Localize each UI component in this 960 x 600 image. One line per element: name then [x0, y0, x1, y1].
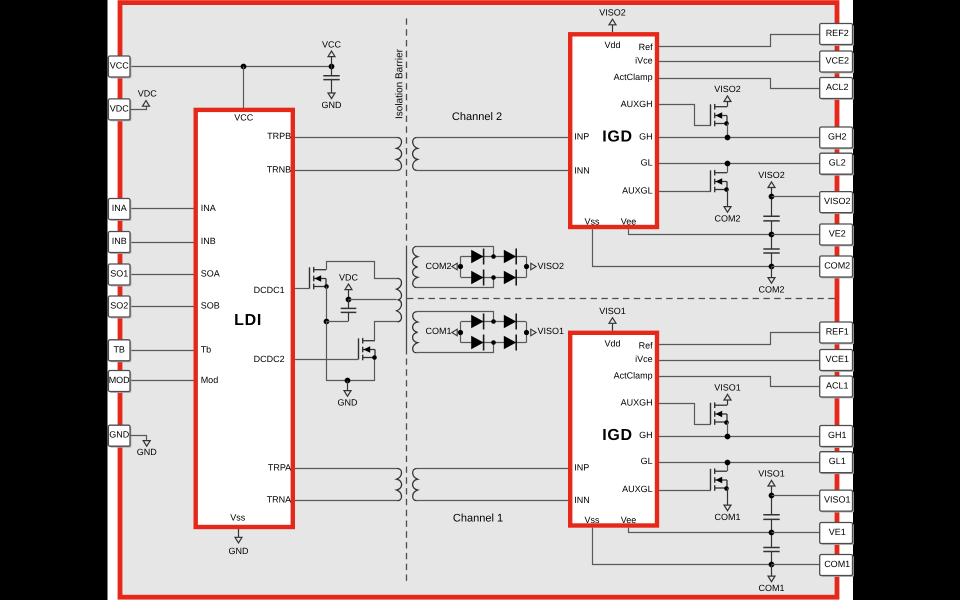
pin iVce: [635, 56, 653, 66]
power symbol VISO2 at Q drain: [727, 102, 729, 107]
wire VDC terminal stub: [130, 106, 147, 109]
pin Vee: [621, 217, 637, 227]
pin ActClamp: [614, 371, 653, 381]
transformer T3 secondary winding: [413, 469, 418, 501]
node bridge AC bottom: [491, 275, 496, 280]
svg-text:INP: INP: [574, 463, 589, 473]
transistor Q1 DCDC1: [309, 267, 311, 288]
wire Q1 source down: [326, 287, 328, 322]
svg-text:VISO1: VISO1: [758, 469, 785, 479]
wire GL to Q drain: [727, 462, 729, 471]
svg-text:GND: GND: [229, 546, 250, 556]
svg-text:INB: INB: [112, 236, 127, 246]
svg-text:VE2: VE2: [829, 229, 846, 239]
svg-text:ACL1: ACL1: [826, 381, 849, 391]
wire DCDC2 gate: [295, 359, 358, 361]
node below Q1: [324, 319, 330, 325]
svg-text:GH1: GH1: [828, 430, 847, 440]
transistor Q2 DCDC2: [358, 338, 360, 359]
node VISO1: [769, 493, 775, 499]
wire bridge top row: [461, 256, 526, 258]
wire AUXGL to gate: [659, 191, 711, 193]
svg-text:INA: INA: [112, 203, 127, 213]
wire secondary to INN channel1: [417, 500, 569, 502]
wire node down to ground rail: [327, 321, 375, 380]
svg-text:AUXGH: AUXGH: [621, 99, 653, 109]
ground symbol COM1 below Q: [727, 488, 729, 501]
terminal TB: [110, 341, 132, 362]
LDI pin INA: [201, 203, 216, 213]
svg-text:VCE1: VCE1: [825, 354, 849, 364]
svg-text:AUXGL: AUXGL: [622, 186, 653, 196]
svg-text:INB: INB: [201, 236, 216, 246]
svg-text:GND: GND: [137, 447, 158, 457]
ground symbol COM1 below rail: [771, 565, 773, 572]
pin GL: [641, 158, 653, 168]
transistor Q low-side aux: [710, 469, 712, 490]
transformer secondary winding: [413, 312, 418, 353]
svg-text:Channel 2: Channel 2: [452, 111, 502, 123]
wire VISO2 to terminal: [772, 196, 820, 198]
svg-text:DCDC2: DCDC2: [254, 354, 285, 364]
wire iVce to VCE1: [659, 360, 820, 362]
node COM1: [769, 562, 775, 568]
svg-text:ActClamp: ActClamp: [614, 72, 653, 82]
wire VE2 to terminal: [772, 234, 820, 236]
node VCC junction: [241, 64, 247, 70]
node VCC cap junction: [329, 64, 335, 70]
pin Ref: [639, 340, 654, 350]
wire DCDC1 gate: [295, 288, 310, 290]
svg-text:COM1: COM1: [714, 512, 740, 522]
svg-text:COM2: COM2: [824, 261, 850, 271]
capacitor C VE-COM: [763, 248, 779, 250]
power symbol VISO2 at cap rail: [771, 188, 773, 192]
svg-text:LDI: LDI: [234, 312, 262, 329]
outer red border with gray fill: [120, 3, 837, 598]
wire GND terminal stub: [130, 436, 147, 441]
wire VCC rail: [130, 66, 332, 68]
svg-text:TRPA: TRPA: [268, 462, 291, 472]
LDI block U1: [196, 110, 293, 527]
pin INP: [574, 463, 589, 473]
pin Vdd: [604, 338, 620, 348]
ground symbol COM2 below rail: [771, 267, 773, 274]
svg-text:GH: GH: [639, 430, 653, 440]
svg-text:REF1: REF1: [826, 327, 849, 337]
svg-text:VCC: VCC: [110, 61, 130, 71]
svg-text:GND: GND: [109, 430, 130, 440]
wire GL to Q drain: [727, 164, 729, 173]
svg-text:Channel 1: Channel 1: [453, 512, 503, 524]
wire SO1 to SOA: [130, 274, 194, 276]
svg-text:Vee: Vee: [621, 515, 637, 525]
svg-text:VCC: VCC: [234, 113, 254, 123]
svg-text:TB: TB: [113, 344, 125, 354]
wire AUXGL to gate: [659, 490, 711, 492]
isolation barrier label: [394, 48, 405, 119]
wire COM2 to terminal: [772, 266, 820, 268]
terminal VE1: [821, 524, 854, 545]
svg-text:GH: GH: [639, 132, 653, 142]
LDI pin INB: [201, 236, 216, 246]
wire Vee to VE2: [629, 229, 772, 234]
svg-text:VISO2: VISO2: [714, 84, 741, 94]
wire Ref to REF2: [659, 35, 820, 47]
terminal GL1: [821, 453, 854, 474]
node bridge AC bottom: [491, 340, 496, 345]
svg-text:Isolation Barrier: Isolation Barrier: [394, 48, 405, 119]
wire cap to node: [326, 321, 348, 323]
pin AUXGL: [622, 186, 653, 196]
node VE2: [769, 232, 775, 238]
svg-text:GND: GND: [338, 397, 359, 407]
isolation barrier dashed line: [406, 18, 408, 241]
svg-text:IGD: IGD: [602, 129, 633, 146]
pin Vss: [584, 217, 600, 227]
wire VCC to LDI: [243, 67, 245, 109]
transistor Q low-side aux: [710, 170, 712, 191]
wire GH to GH1: [659, 436, 820, 438]
pin Ref: [639, 42, 654, 52]
terminal GL2: [821, 155, 854, 176]
svg-text:COM1: COM1: [758, 583, 784, 593]
net label VISO2: [531, 263, 536, 270]
power symbol VDC center tap: [348, 290, 350, 300]
svg-text:TRNB: TRNB: [267, 164, 292, 174]
wire winding top to bridge: [417, 312, 494, 322]
wire bridge bottom row: [461, 342, 526, 344]
wire AUXGH to gate: [659, 404, 711, 425]
node VE1: [769, 530, 775, 536]
svg-text:GL1: GL1: [829, 456, 846, 466]
svg-text:COM1: COM1: [824, 559, 850, 569]
svg-text:MOD: MOD: [109, 375, 130, 385]
svg-text:AUXGL: AUXGL: [622, 484, 653, 494]
wire SO2 to SOB: [130, 306, 194, 308]
node VISO1: [524, 330, 529, 335]
wire Ref to REF1: [659, 333, 820, 345]
wire secondary to INP channel1: [417, 468, 569, 470]
terminal ACL2: [821, 79, 854, 100]
diode D3: [471, 336, 483, 350]
wire Vss to COM1: [593, 528, 772, 565]
wire ActClamp to ACL2: [659, 79, 820, 89]
pin GH: [639, 430, 653, 440]
wire winding bottom to bridge: [417, 278, 494, 288]
LDI pin TRNA: [267, 495, 292, 505]
terminal VCE2: [821, 52, 854, 73]
svg-text:VISO2: VISO2: [758, 170, 785, 180]
net label COM1: [452, 329, 457, 336]
wire AUXGH to gate: [659, 105, 711, 126]
pin AUXGL: [622, 484, 653, 494]
svg-text:VCE2: VCE2: [825, 56, 849, 66]
svg-text:VISO2: VISO2: [599, 8, 626, 18]
svg-text:VISO1: VISO1: [599, 306, 626, 316]
wire GL to GL2: [659, 163, 820, 165]
wire bridge top row: [461, 321, 526, 323]
wire INB: [130, 242, 194, 244]
svg-text:COM2: COM2: [758, 284, 784, 294]
transformer T1 primary winding lower: [397, 300, 402, 322]
IGD title: [602, 427, 633, 444]
node GL junction: [725, 460, 731, 466]
diode D1: [471, 250, 483, 264]
svg-text:TRPB: TRPB: [267, 131, 291, 141]
pin AUXGH: [621, 398, 653, 408]
node bridge AC top: [491, 319, 496, 324]
terminal COM1: [821, 556, 854, 577]
svg-text:iVce: iVce: [635, 56, 653, 66]
svg-text:COM2: COM2: [425, 261, 451, 271]
svg-text:VCC: VCC: [322, 39, 342, 49]
wire bridge right rail: [526, 322, 528, 343]
wire VISO1 rail: [771, 490, 773, 515]
wire secondary to INP: [417, 137, 569, 139]
LDI pin SOB: [201, 301, 220, 311]
node ground rail tap: [345, 378, 351, 384]
channel 1 label: [453, 512, 503, 524]
wire Q source to GH: [727, 124, 729, 138]
ground symbol at GND terminal: [143, 441, 150, 447]
svg-text:Vee: Vee: [621, 217, 637, 227]
wire GH to GH2: [659, 137, 820, 139]
transformer core solid line: [406, 246, 408, 355]
svg-text:GL: GL: [641, 456, 653, 466]
terminal VE2: [821, 225, 854, 246]
wire MOD to Mod: [130, 380, 194, 382]
power symbol VISO1 at Q drain: [727, 400, 729, 405]
wire bridge left rail: [460, 322, 462, 343]
svg-text:SO2: SO2: [110, 301, 128, 311]
svg-text:VDC: VDC: [138, 89, 158, 99]
svg-text:INP: INP: [574, 132, 589, 142]
transformer T1 primary winding upper: [397, 278, 402, 299]
wire VE1 to terminal: [772, 532, 820, 534]
svg-text:TRNA: TRNA: [267, 495, 292, 505]
pin INN: [574, 495, 590, 505]
node bridge AC top: [491, 254, 496, 259]
diode D4: [504, 271, 516, 285]
svg-text:SO1: SO1: [110, 269, 128, 279]
wire COM1 to terminal: [772, 564, 820, 566]
pin GL: [641, 456, 653, 466]
svg-text:VE1: VE1: [829, 527, 846, 537]
LDI pin TRNB: [267, 164, 292, 174]
node VISO2: [769, 194, 775, 200]
svg-text:GL: GL: [641, 158, 653, 168]
node COM1: [458, 330, 463, 335]
terminal INA: [110, 200, 132, 221]
terminal GH1: [821, 427, 854, 448]
svg-text:ACL2: ACL2: [826, 82, 849, 92]
terminal SO2: [110, 297, 132, 318]
svg-text:INN: INN: [574, 165, 590, 175]
svg-text:GH2: GH2: [828, 132, 847, 142]
wire TRPA: [295, 468, 398, 470]
wire TB to Tb: [130, 350, 194, 352]
svg-text:Vss: Vss: [230, 513, 246, 523]
pin INP: [574, 132, 589, 142]
node VDC tap: [346, 297, 352, 303]
svg-text:IGD: IGD: [602, 427, 633, 444]
terminal VCC: [110, 57, 132, 78]
svg-text:DCDC1: DCDC1: [254, 285, 285, 295]
svg-text:Vss: Vss: [584, 515, 600, 525]
channel divider dashed line: [407, 298, 835, 300]
svg-text:Vss: Vss: [584, 217, 600, 227]
transformer T2 primary winding: [397, 138, 402, 171]
node GH junction: [725, 135, 731, 141]
svg-text:SOA: SOA: [201, 269, 220, 279]
power symbol VCC: [331, 57, 333, 67]
wire Vss to COM2: [593, 229, 772, 266]
wire ActClamp to ACL1: [659, 377, 820, 387]
wire TRNB: [295, 170, 398, 172]
diode D1: [471, 315, 483, 329]
IGD block channel 1: [570, 333, 657, 526]
wire winding top to bridge: [417, 247, 494, 257]
svg-text:Ref: Ref: [639, 340, 654, 350]
wire INA: [130, 208, 194, 210]
svg-text:Vdd: Vdd: [604, 40, 620, 50]
node GL junction: [725, 161, 731, 167]
wire winding bottom to bridge: [417, 343, 494, 353]
svg-text:Ref: Ref: [639, 42, 654, 52]
node GH junction: [725, 434, 731, 440]
terminal VISO1: [821, 492, 854, 513]
LDI pin DCDC2: [254, 354, 285, 364]
LDI pin TRPB: [267, 131, 291, 141]
diode D4: [504, 336, 516, 350]
wire Q source to GH: [727, 422, 729, 436]
pin GH: [639, 132, 653, 142]
LDI pin TRPA: [268, 462, 291, 472]
ground below LDI Vss: [238, 529, 240, 533]
LDI pin Mod: [201, 375, 219, 385]
capacitor DC-DC: [348, 300, 350, 309]
wire secondary to INN: [417, 170, 569, 172]
terminal ACL1: [821, 377, 854, 398]
svg-text:Mod: Mod: [201, 375, 219, 385]
diode D3: [471, 271, 483, 285]
terminal GND: [110, 427, 132, 448]
node COM2: [458, 264, 463, 269]
svg-text:VISO2: VISO2: [824, 196, 851, 206]
svg-text:REF2: REF2: [826, 28, 849, 38]
svg-text:VISO1: VISO1: [538, 326, 565, 336]
LDI pin SOA: [201, 269, 220, 279]
net label COM2: [452, 263, 457, 270]
svg-text:SOB: SOB: [201, 301, 220, 311]
terminal COM2: [821, 257, 854, 278]
terminal GH2: [821, 128, 854, 149]
LDI pin Vss: [230, 513, 246, 523]
capacitor C VE-COM: [763, 547, 779, 549]
pin Vee: [621, 515, 637, 525]
power symbol VDC at terminal: [143, 101, 150, 107]
svg-text:Vdd: Vdd: [604, 338, 620, 348]
diode D2: [504, 250, 516, 264]
pin Vss: [584, 515, 600, 525]
wire Q2 drain to transformer: [375, 322, 398, 341]
wire TRPB: [295, 137, 398, 139]
IGD title: [602, 129, 633, 146]
capacitor C VISO-VE: [763, 514, 779, 516]
transformer T2 secondary winding: [413, 138, 418, 171]
svg-text:VISO1: VISO1: [824, 495, 851, 505]
terminal VDC: [110, 100, 132, 121]
pin ActClamp: [614, 72, 653, 82]
wire VISO1 to terminal: [772, 495, 820, 497]
node COM2: [769, 264, 775, 270]
LDI pin VCC: [234, 113, 254, 123]
terminal REF1: [821, 323, 854, 344]
transistor Q high-side aux: [710, 104, 712, 125]
wire iVce to VCE2: [659, 61, 820, 63]
svg-text:VISO2: VISO2: [538, 261, 565, 271]
transformer secondary winding: [413, 246, 418, 287]
terminal MOD: [110, 372, 132, 393]
pin AUXGH: [621, 99, 653, 109]
wire bridge right rail: [526, 256, 528, 277]
power symbol VISO1 at cap rail: [771, 486, 773, 490]
wire bridge bottom row: [461, 277, 526, 279]
svg-text:ActClamp: ActClamp: [614, 371, 653, 381]
terminal REF2: [821, 25, 854, 46]
capacitor C VISO-VE: [763, 215, 779, 217]
ground below VCC capacitor: [331, 80, 333, 93]
svg-text:INN: INN: [574, 495, 590, 505]
net label VISO1: [531, 329, 536, 336]
power symbol VISO1 at Vdd: [612, 323, 614, 330]
terminal VISO2: [821, 193, 854, 214]
svg-text:COM1: COM1: [425, 326, 451, 336]
svg-text:AUXGH: AUXGH: [621, 398, 653, 408]
pin INN: [574, 165, 590, 175]
wire VISO2 rail: [771, 192, 773, 217]
terminal VCE1: [821, 351, 854, 372]
svg-text:Tb: Tb: [201, 344, 212, 354]
wire bridge left rail: [460, 256, 462, 277]
svg-text:VISO1: VISO1: [714, 383, 741, 393]
svg-text:COM2: COM2: [714, 213, 740, 223]
svg-text:INA: INA: [201, 203, 216, 213]
node VISO2: [524, 264, 529, 269]
svg-text:GND: GND: [322, 100, 343, 110]
LDI pin Tb: [201, 344, 212, 354]
IGD block channel 2: [570, 34, 657, 227]
wire center tap to primary winding: [348, 299, 396, 301]
svg-text:VDC: VDC: [339, 272, 359, 282]
terminal SO1: [110, 265, 132, 286]
pin iVce: [635, 354, 653, 364]
ground symbol COM2 below Q: [727, 190, 729, 203]
LDI title: [234, 312, 262, 329]
wire Vee to VE1: [629, 528, 772, 533]
wire GL to GL1: [659, 462, 820, 464]
transistor Q high-side aux: [710, 403, 712, 424]
capacitor VCC decoupling: [331, 67, 333, 76]
wire TRNA: [295, 500, 398, 502]
svg-text:VDC: VDC: [110, 103, 130, 113]
ground below DC-DC: [347, 381, 349, 391]
terminal INB: [110, 233, 132, 254]
pin Vdd: [604, 40, 620, 50]
power symbol VISO2 at Vdd: [612, 25, 614, 32]
drawing canvas white margin: [108, 0, 854, 600]
